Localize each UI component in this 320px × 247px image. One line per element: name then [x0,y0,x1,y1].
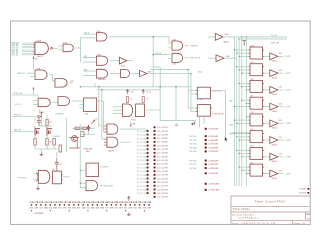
pin B10 [205,172,207,174]
wire down to gate [56,152,58,159]
resistor R3 [59,145,62,152]
driver box IC15 [250,64,263,76]
svg-text:FAN_CTL: FAN_CTL [14,129,22,132]
wires G2 in [59,45,64,47]
svg-text:IC22: IC22 [279,53,282,55]
supply tee top [39,112,43,117]
svg-text:PWR_LED: PWR_LED [271,42,280,44]
pin B4 [205,143,207,145]
wire bus H2 [97,89,160,91]
svg-text:IO3: IO3 [87,208,90,210]
net arrow below nand [33,56,35,70]
svg-text:L-IO_L12-PIN: L-IO_L12-PIN [157,167,168,169]
wire out unit 1 [278,55,283,57]
svg-text:L-IO_L03-PIN: L-IO_L03-PIN [157,134,168,136]
svg-text:N$8: N$8 [133,124,136,126]
svg-text:GN1: GN1 [119,208,123,210]
svg-text:L-IO_L05-PIN: L-IO_L05-PIN [157,142,168,144]
svg-text:PB_SIG2: PB_SIG2 [189,140,196,142]
wire G10a-G10b [52,101,58,103]
svg-text:IO0: IO0 [115,208,118,210]
transistor Q1 [72,136,78,142]
svg-text:L-IO_L18-PIN: L-IO_L18-PIN [157,189,168,191]
ground below gate [36,187,40,190]
svg-text:IO0: IO0 [30,208,33,210]
wire label PWROK [12,116,38,118]
buffer T8 [264,139,270,141]
svg-text:IO7: IO7 [105,208,108,210]
svg-text:LX-PB7-NET: LX-PB7-NET [209,164,220,166]
buffer IC6B [140,70,147,76]
svg-text:L-PX-ST2: L-PX-ST2 [299,193,306,195]
svg-text:REV:: REV: [306,214,311,216]
resistor R8 [75,127,80,129]
svg-text:IO1: IO1 [77,208,80,210]
svg-text:D: D [252,134,253,136]
resistor R2 [142,97,144,103]
resistor R4 [46,119,48,125]
supply arrow 1 [126,90,129,95]
timer box U4 [53,171,62,184]
svg-text:L-IO_L09-PIN: L-IO_L09-PIN [157,156,168,158]
svg-text:IC20: IC20 [250,146,253,148]
svg-text:IO5: IO5 [96,208,99,210]
svg-text:PS_ON: PS_ON [271,35,278,37]
svg-text:PWR_GOOD: PWR_GOOD [190,58,201,60]
and gate IC3B [172,53,183,62]
svg-text:N$Q1: N$Q1 [198,72,202,74]
supply arrow 2 [142,90,145,95]
svg-text:ARM_OK: ARM_OK [18,72,26,75]
svg-text:LX-PB10-NET: LX-PB10-NET [209,184,221,186]
svg-text:OUT3: OUT3 [286,106,291,108]
svg-text:IC19: IC19 [250,129,253,131]
svg-text:CFG_D4: CFG_D4 [12,53,19,56]
driver box IC20 [250,147,263,159]
svg-text:D: D [252,167,253,169]
vertical wire x66 right [66,118,68,152]
wires FF2 bottom pins [199,116,201,127]
flipflop U2 box [83,98,96,111]
wire G8-B2 [131,73,139,75]
label G5b out [69,82,72,84]
wire G6-B1 [110,60,120,62]
pin A1 [154,126,156,128]
and gate IC31A [86,180,98,190]
ground row [127,213,131,216]
svg-text:PC_IO_L17: PC_IO_L17 [137,186,146,188]
svg-text:LX-PB9-NET: LX-PB9-NET [209,173,220,175]
flipflop IC13A [197,87,210,99]
svg-text:N$22: N$22 [86,151,90,153]
svg-text:V5: V5 [96,119,98,121]
gray smudge [175,123,178,126]
svg-text:PB_SIG3: PB_SIG3 [189,144,196,146]
supply flag on bus [242,41,246,46]
pin B8 [205,163,207,165]
buffer T9 [264,156,270,158]
wire out unit 2 [278,72,283,74]
svg-text:N$1: N$1 [35,59,38,61]
svg-text:IO6: IO6 [143,208,146,210]
svg-text:R7: R7 [50,142,52,144]
driver box IC21 [250,164,263,176]
svg-text:Power Control FPGA: Power Control FPGA [255,199,286,203]
pin A20 [154,196,156,198]
svg-text:PC_IO_L11: PC_IO_L11 [137,164,146,166]
pin B1 [205,128,207,130]
svg-text:OUT6: OUT6 [286,157,291,159]
nand U1A output bubble [51,47,53,49]
svg-text:PC_IO_L18: PC_IO_L18 [137,190,146,192]
svg-text:N$11: N$11 [230,134,234,136]
svg-text:L-JP-HDR26: L-JP-HDR26 [33,213,43,215]
wire B2 out long [147,73,191,75]
buffer T1 [208,36,215,38]
nand gate U1A [35,42,48,54]
wire loop bottom [160,120,196,122]
wire G4 out label [185,45,189,47]
wires G1 inputs [22,42,34,44]
net arrow up diagonal [91,120,95,124]
svg-text:L-IO_L15-PIN: L-IO_L15-PIN [157,178,168,180]
resistor R9 [82,127,87,129]
svg-text:D: D [252,150,253,152]
wire loop right [175,87,177,121]
svg-text:L-IO_L06-PIN: L-IO_L06-PIN [157,145,168,147]
wire U1A out [53,47,59,49]
svg-text:L-PWRSEQ: L-PWRSEQ [55,114,64,116]
wire label STDBY [12,94,38,96]
svg-text:PB_SIG5: PB_SIG5 [189,151,196,153]
svg-text:GN1: GN1 [34,208,38,210]
resistor R1 [126,97,128,103]
svg-text:PB_SIG6: PB_SIG6 [189,160,196,162]
resistor R6 [46,139,48,146]
svg-text:L-IO_L19-PIN: L-IO_L19-PIN [157,193,168,195]
svg-text:V-SENSE: V-SENSE [53,136,60,138]
driver box IC14 [250,47,263,59]
svg-text:PC_IO_L05: PC_IO_L05 [137,142,146,144]
wire out unit 3 [278,89,283,91]
supply arrow row [128,196,131,201]
wire G3 input A [83,33,96,35]
wire G2 out to vertical [75,38,96,48]
svg-text:IC27: IC27 [279,137,282,139]
svg-text:LX-PB6-NET: LX-PB6-NET [209,160,220,162]
pin B2 [205,135,207,137]
and gate IC8B [55,79,67,88]
svg-text:IC21: IC21 [250,162,253,164]
svg-text:Q2: Q2 [34,127,36,129]
svg-text:PB_SIG4: PB_SIG4 [189,146,196,149]
svg-text:PWR_OK: PWR_OK [14,115,22,117]
vertical net below G2 [80,48,82,62]
cap above U4 [55,159,59,172]
wire out unit 8 [278,173,283,175]
svg-text:PC_IO_L08: PC_IO_L08 [137,153,146,155]
svg-text:IC29: IC29 [279,170,282,172]
pin B3 [205,139,207,141]
and gate IC2A [96,33,107,41]
svg-text:L-IO_L13-PIN: L-IO_L13-PIN [157,171,168,173]
svg-text:IC11A: IC11A [131,119,136,122]
svg-text:IC15: IC15 [250,62,253,64]
wire G5a out [49,75,55,81]
svg-text:L-PWR-SEQ: L-PWR-SEQ [83,149,93,151]
resistor R7 [53,139,55,146]
svg-text:L-IO_L02-PIN: L-IO_L02-PIN [157,131,168,133]
svg-text:PS-OKAY: PS-OKAY [101,165,109,168]
svg-text:PC_IO_L14: PC_IO_L14 [137,174,146,177]
svg-text:L-CD-FPGA-01-1: L-CD-FPGA-01-1 [238,217,259,220]
wire bus H1 [81,86,192,88]
wires G11 outputs [120,128,147,130]
pin extra 2 [308,192,310,194]
svg-text:L-NX-HOLD: L-NX-HOLD [213,114,225,116]
svg-text:Document Number:: Document Number: [232,213,255,216]
sheet frame [11,21,311,224]
and gate IC7A [121,70,130,78]
mouse cursor [225,137,228,142]
svg-text:GN3: GN3 [128,208,132,210]
svg-text:LX-PB2-NET: LX-PB2-NET [209,140,220,142]
svg-text:GN2: GN2 [81,208,85,210]
pin B12 [205,189,207,191]
svg-text:N$5: N$5 [71,81,74,83]
wire row resistors [72,127,95,129]
gray wire near cursor [232,132,250,134]
svg-text:PC_IO_L02: PC_IO_L02 [137,131,146,133]
svg-text:PB_SIG8: PB_SIG8 [189,168,196,170]
svg-text:PC_IO_L12: PC_IO_L12 [137,168,146,170]
svg-text:OUT0: OUT0 [286,56,291,58]
wire B1 out [127,60,133,62]
title block border [231,196,310,224]
flipflop IC13B [197,105,210,117]
svg-text:STDBY_EN: STDBY_EN [13,93,23,95]
wire sub cluster [88,131,90,134]
net arrow FF2 [194,121,196,125]
svg-text:RST_BTN: RST_BTN [18,178,27,180]
buffer IC6A [119,57,127,64]
svg-text:GN7: GN7 [63,208,67,210]
buffer T4 [264,72,270,74]
pin B5 [205,147,207,149]
svg-text:IC18: IC18 [250,112,253,114]
wires resistor bottoms [34,136,36,139]
svg-text:LX-PB5-NET: LX-PB5-NET [209,151,220,153]
svg-text:C1: C1 [34,119,36,121]
pin B9 [205,167,207,169]
buffer T2 [208,57,216,59]
wire G7-G8 [110,73,121,75]
svg-text:D: D [252,50,253,52]
bus vertical wires [233,37,235,186]
svg-text:D: D [252,100,253,102]
svg-text:LX-PB11-NET: LX-PB11-NET [209,190,221,192]
svg-text:N$3: N$3 [84,56,87,58]
wire T1 out long [223,36,287,38]
svg-text:74AC30: 74AC30 [37,55,43,58]
svg-text:LX-PB8-NET: LX-PB8-NET [209,168,220,170]
vertical V1 [99,87,104,126]
svg-text:GN0: GN0 [72,208,76,210]
svg-text:PC_IO_L04: PC_IO_L04 [137,137,146,140]
svg-text:IC23: IC23 [279,70,282,72]
svg-text:Q3: Q3 [46,127,48,129]
svg-text:L-IO_L07-PIN: L-IO_L07-PIN [157,149,168,151]
wire out unit 7 [278,156,283,158]
driver box IC19 [250,131,263,143]
wire G10b out to FF [72,100,80,102]
svg-text:LX-PB1-NET: LX-PB1-NET [209,136,220,138]
svg-text:L-IO_L08-PIN: L-IO_L08-PIN [157,153,168,155]
vertical V3 up [94,83,96,87]
svg-text:PC_IO_L06: PC_IO_L06 [137,146,146,148]
svg-text:D: D [252,67,253,69]
svg-text:GN5: GN5 [53,208,57,210]
svg-text:EN_A: EN_A [85,31,90,34]
svg-text:PC_IO_L19: PC_IO_L19 [137,193,146,195]
svg-text:IO6: IO6 [58,208,61,210]
driver box IC16 [250,80,263,92]
svg-text:R1: R1 [131,99,133,101]
and gate IC12A [107,124,118,134]
mosfet Q3 [47,129,52,136]
and gate IC1B [63,44,73,52]
svg-text:LX-PB4-NET: LX-PB4-NET [209,146,220,149]
svg-text:GN8: GN8 [110,208,114,210]
svg-text:IC25: IC25 [279,103,282,105]
svg-text:L-IO_L04-PIN: L-IO_L04-PIN [157,137,168,140]
svg-text:LX-PB3-NET: LX-PB3-NET [209,144,220,146]
wire out unit 6 [278,139,283,141]
vertical nets to FF2 [188,91,197,109]
wire out unit 4 [278,106,283,108]
wires G6 inputs [83,57,96,59]
svg-text:GN3: GN3 [44,208,48,210]
vertical branch to G5 [153,37,170,55]
svg-text:PC_IO_L15: PC_IO_L15 [137,179,146,181]
mux gate [123,104,133,117]
svg-text:L-IO_L01-PIN: L-IO_L01-PIN [157,127,168,129]
svg-text:L-IO_L20-PIN: L-IO_L20-PIN [157,197,168,199]
svg-text:N$CLK: N$CLK [156,53,162,55]
svg-text:IO8: IO8 [68,208,71,210]
svg-text:D: D [252,83,253,85]
svg-text:PC_IO_L10: PC_IO_L10 [137,160,146,162]
and gate IC30A [38,170,50,183]
nand U1A pin ticks [34,43,36,56]
wire U2 out [97,101,104,132]
wires mux inputs [113,106,123,108]
pin B7 [205,160,207,162]
wire FF1 out [211,91,226,141]
svg-text:GN7: GN7 [147,208,151,210]
wire G5 out label [185,57,188,59]
driver box IC17 [250,97,263,109]
svg-text:Sheet: 1/1: Sheet: 1/1 [294,222,307,225]
driver box IC18 [250,114,263,126]
svg-text:L-IO_L16-PIN: L-IO_L16-PIN [157,182,168,184]
and gate IC12B [107,137,118,147]
svg-text:L-IO_L10-PIN: L-IO_L10-PIN [157,160,168,162]
box U3 [86,163,99,176]
svg-text:L-MR-RST: L-MR-RST [190,45,200,47]
buffer T7 [264,122,270,124]
wire U4 out [63,176,70,178]
vertical branch down [152,55,154,87]
svg-text:OUT7: OUT7 [286,173,291,175]
svg-text:OUT5: OUT5 [286,140,291,142]
svg-text:V5: V5 [39,110,41,112]
svg-text:PC_IO_L07: PC_IO_L07 [137,149,146,151]
svg-text:PB_SIG1: PB_SIG1 [189,136,196,138]
wire mux out [144,109,160,111]
resistor R10 [81,132,84,137]
vertical V2 [102,90,104,139]
buffer T10 [264,173,270,175]
svg-text:R2: R2 [147,99,149,101]
and gate IC9A [38,98,50,107]
wire G13 out [100,185,103,187]
wire label 2 [12,131,34,133]
svg-text:PC_IO_L09: PC_IO_L09 [137,157,146,159]
svg-text:N$10: N$10 [230,125,234,127]
svg-text:74AC08D: 74AC08D [98,78,106,81]
wire G3 out long [109,37,172,43]
svg-text:PB_SIG7: PB_SIG7 [189,164,196,166]
net arrow mux [130,122,132,128]
and gate IC9B [58,97,70,106]
red link wires [69,138,80,149]
svg-text:LX-PB0-NET: LX-PB0-NET [209,129,220,131]
and gate IC3A [172,41,183,50]
svg-text:IC26: IC26 [279,120,282,122]
wire out unit 5 [278,122,283,124]
resistor R5 [34,139,36,146]
svg-text:PC_IO_L03: PC_IO_L03 [137,135,146,137]
buffer T6 [264,106,270,108]
svg-text:R3: R3 [55,149,57,151]
svg-text:IO2: IO2 [124,208,127,210]
svg-text:IC28: IC28 [279,154,282,156]
buffer T3 [264,55,270,57]
wire T2 out [224,57,237,59]
svg-text:Date: 2/28/2013 10:24:47 PM: Date: 2/28/2013 10:24:47 PM [232,222,275,225]
svg-text:VCC3: VCC3 [147,92,151,94]
svg-text:IO2: IO2 [40,208,43,210]
cap vertical C8 [87,125,90,131]
svg-text:SLP_S3: SLP_S3 [15,104,21,106]
vertical nets to FF1 [150,68,188,70]
wire net long 2 [239,38,287,40]
svg-text:L-IO_L14-PIN: L-IO_L14-PIN [157,174,168,177]
svg-text:TITLE: FPGA1: TITLE: FPGA1 [233,208,251,211]
vertical wire x80 [79,152,81,188]
svg-text:L-IO_L17-PIN: L-IO_L17-PIN [157,186,168,188]
svg-text:PC_IO_L16: PC_IO_L16 [137,182,146,184]
svg-text:PC_IO_L13: PC_IO_L13 [137,171,146,173]
wire loop left [159,67,161,121]
svg-text:IC17: IC17 [250,95,253,97]
pin B6 [205,150,207,152]
svg-text:C9: C9 [60,163,62,165]
svg-text:OUT2: OUT2 [286,90,291,92]
wires G7 inputs [83,70,96,72]
ground cluster [40,153,44,156]
